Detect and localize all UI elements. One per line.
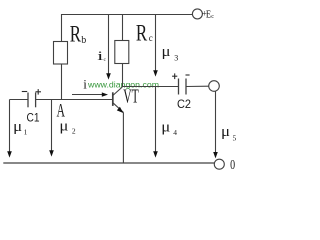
svg-text:C1: C1 xyxy=(27,112,40,124)
svg-text:0: 0 xyxy=(230,157,235,172)
svg-text:μ: μ xyxy=(162,44,171,60)
svg-text:4: 4 xyxy=(173,128,177,137)
svg-text:c: c xyxy=(211,14,214,20)
svg-text:μ: μ xyxy=(59,119,68,135)
svg-text:5: 5 xyxy=(233,134,237,143)
svg-text:μ: μ xyxy=(13,119,22,135)
svg-text:C2: C2 xyxy=(177,97,191,111)
svg-text:R: R xyxy=(70,22,81,48)
svg-text:i: i xyxy=(83,77,87,92)
svg-text:3: 3 xyxy=(174,54,178,63)
svg-text:2: 2 xyxy=(72,127,76,136)
svg-text:μ: μ xyxy=(221,124,230,140)
svg-text:μ: μ xyxy=(161,120,170,136)
svg-text:1: 1 xyxy=(24,127,28,136)
svg-text:c: c xyxy=(149,33,153,43)
svg-text:b: b xyxy=(81,35,86,46)
svg-text:VT: VT xyxy=(123,86,139,107)
svg-text:R: R xyxy=(136,20,148,46)
